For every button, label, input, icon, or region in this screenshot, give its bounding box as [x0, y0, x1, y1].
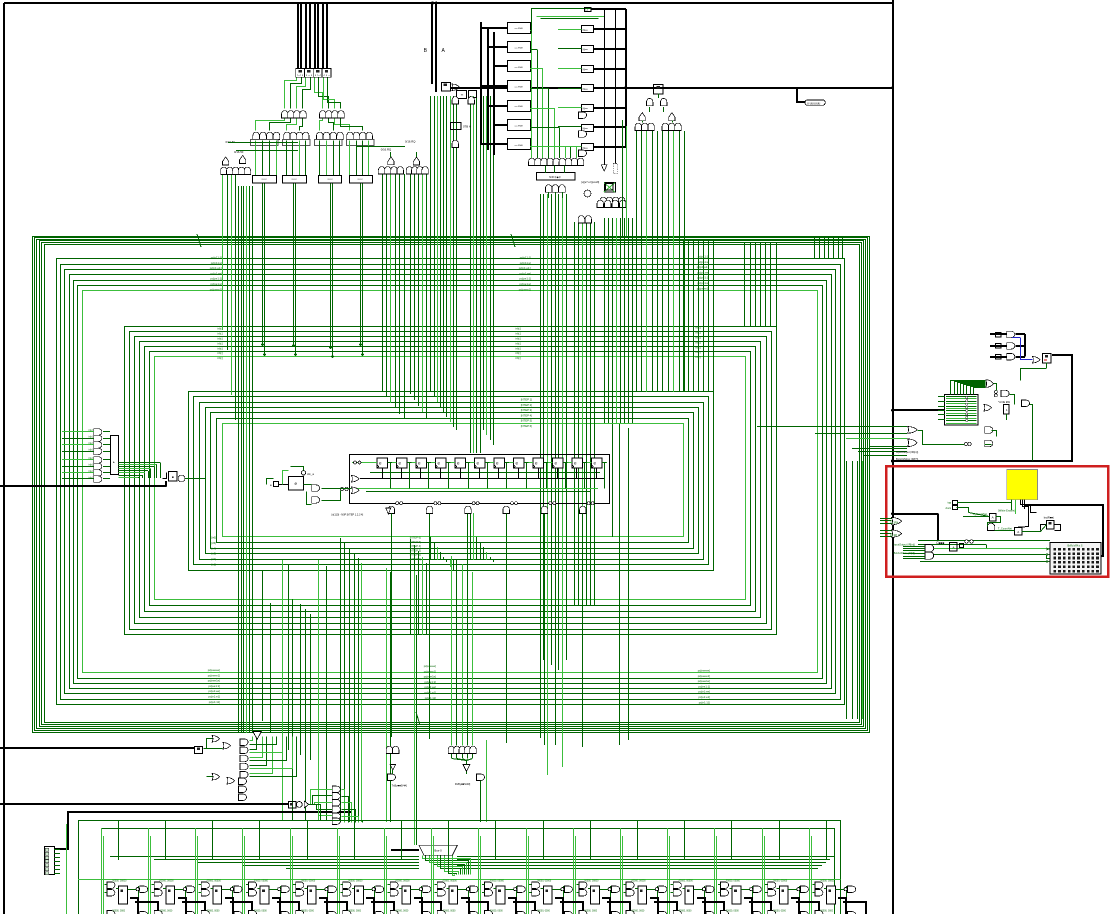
gate C3 row (4 gates) — [406, 167, 428, 174]
svg-text:clock: clock — [945, 507, 951, 510]
register cells column wires — [102, 820, 847, 914]
svg-text:2-2-2: 2-2-2 — [261, 179, 267, 181]
svg-text:ir[e]: ir[e] — [89, 449, 93, 452]
svg-text:[NTEP 2]: [NTEP 2] — [521, 403, 533, 407]
svg-text:irb[.]: irb[.] — [218, 331, 224, 335]
svg-text:a.a 9Rd9: a.a 9Rd9 — [515, 28, 524, 30]
svg-text:a.a 9Rd9: a.a 9Rd9 — [515, 125, 524, 127]
svg-text:00000, 0000: 00000, 0000 — [679, 911, 692, 913]
wires ctl cluster — [266, 467, 352, 505]
svg-text:pc[ee1:1]: pc[ee1:1] — [698, 684, 710, 688]
red tiny comp — [960, 544, 964, 548]
wires BL inputs — [205, 739, 223, 777]
svg-text:00000, 00000: 00000, 00000 — [254, 881, 269, 883]
IO black wires rows — [990, 334, 1025, 357]
svg-text:pc[eeeee]: pc[eeeee] — [698, 669, 711, 673]
clk source circle — [301, 471, 314, 476]
svg-text:2-2-2: 2-2-2 — [291, 179, 297, 181]
svg-text:00000, 00000: 00000, 00000 — [820, 881, 835, 883]
wires mid elbows — [342, 790, 363, 823]
svg-text:pc[e1:ee]: pc[e1:ee] — [424, 685, 436, 689]
wires C2 C3 inputs — [357, 147, 417, 158]
input connector array — [45, 847, 61, 875]
wires rx fan — [309, 790, 333, 821]
wire pair x620 lower — [613, 424, 629, 745]
gate pyramid right (4) — [597, 200, 626, 207]
mux trapezoid Bus-0 — [419, 845, 457, 855]
svg-text:pc[e1:e1]: pc[e1:e1] — [698, 695, 710, 699]
control box bottom gates — [388, 502, 594, 514]
gate column mid (6) — [332, 786, 340, 824]
svg-text:a.a 9Rd9: a.a 9Rd9 — [515, 145, 524, 147]
wire y87 long to right border — [450, 87, 892, 89]
svg-text:00000, 0000: 00000, 0000 — [301, 911, 314, 913]
component OTB H box — [451, 123, 462, 130]
svg-text:pc[eee1e]: pc[eee1e] — [698, 679, 711, 683]
svg-text:pc[p1:e1:]: pc[p1:e1:] — [519, 266, 532, 270]
red circ comps — [965, 540, 973, 543]
wire T box loop right — [893, 355, 1072, 461]
svg-text:Bus-0: Bus-0 — [434, 849, 442, 853]
svg-text:irb[:]: irb[:] — [516, 341, 522, 345]
wire bundle lower-mid band — [341, 538, 362, 822]
svg-text:N•••: N••• — [583, 28, 588, 32]
gate C1 xor a — [223, 157, 229, 165]
wire bundle V10 — [541, 194, 567, 775]
svg-text:a.a 9Rd9: a.a 9Rd9 — [515, 47, 524, 49]
wire a2 to right — [591, 8, 626, 10]
wire row1 to row2 — [256, 119, 363, 131]
component m1 — [457, 91, 467, 99]
component a-2 — [585, 8, 591, 12]
svg-text:N•••: N••• — [583, 126, 588, 130]
ROM top green wires — [532, 9, 611, 34]
gate BL or1 — [212, 736, 220, 743]
svg-text:pc[e1:e1]: pc[e1:e1] — [208, 695, 220, 699]
svg-text:ir[e]: ir[e] — [89, 476, 93, 479]
svg-text:pc[pe1:1]: pc[pe1:1] — [519, 277, 531, 281]
svg-text:00000, 00000: 00000, 00000 — [679, 881, 694, 883]
register cell labels — [112, 881, 835, 883]
wire tx down — [390, 754, 392, 765]
gate tx and — [388, 774, 396, 781]
diamond gate below ctl — [386, 508, 391, 514]
T flipflop box — [1043, 354, 1052, 364]
wires ring to IO cluster — [757, 427, 907, 456]
wire bundle V15 right of group4 — [684, 240, 714, 392]
svg-text:pc[eeee1]: pc[eeee1] — [698, 674, 711, 678]
svg-text:pc[eeee1]: pc[eeee1] — [208, 673, 221, 677]
decoder box D4 — [350, 176, 373, 183]
gate BL or4 — [227, 778, 235, 785]
svg-text:00000, 00000: 00000, 00000 — [112, 881, 127, 883]
splitter box y748 — [195, 747, 203, 754]
svg-text:pc[p1:ee]: pc[p1:ee] — [519, 271, 531, 275]
svg-text:pc[p11:1]: pc[p11:1] — [520, 256, 532, 260]
svg-text:00000, 0000: 00000, 0000 — [820, 911, 833, 913]
ROM N outputs black — [593, 9, 626, 147]
wire bundle V8 — [431, 96, 457, 570]
yellow LED square — [1007, 470, 1038, 500]
svg-text:a.a 9Rd9: a.a 9Rd9 — [515, 86, 524, 88]
wire bundle V11 — [575, 222, 595, 606]
regfile outer green rect top — [67, 821, 841, 914]
gate T3 row a (3) — [635, 123, 654, 130]
wire pair x414 — [415, 571, 417, 845]
clock pin box — [953, 506, 958, 510]
IO blue wire — [1012, 338, 1033, 360]
wire y748 to gate — [204, 739, 213, 749]
svg-text:0TB H: 0TB H — [463, 125, 471, 129]
svg-text:[ir2]: [ir2] — [211, 557, 216, 561]
gate IO and big — [1022, 400, 1030, 407]
bus ring group1 (outer pc bus) — [33, 237, 870, 733]
wire pairs below decoder boxes — [261, 182, 364, 358]
bus ring group4 (step bits) — [189, 392, 714, 571]
FF boxes row — [377, 458, 602, 468]
svg-text:00000, 0000: 00000, 0000 — [254, 911, 267, 913]
regfile stepped bus lines — [110, 857, 834, 869]
frame left border — [3, 3, 5, 914]
IO cluster green links — [918, 363, 1047, 461]
svg-text:00000, 0000: 00000, 0000 — [443, 911, 456, 913]
ROM lower gates (3) — [545, 185, 565, 192]
svg-text:a.a 9Rd9: a.a 9Rd9 — [515, 67, 524, 69]
svg-text:a.a 9Rd9: a.a 9Rd9 — [515, 106, 524, 108]
frame right border — [892, 0, 894, 914]
IO pin row3 gate — [1007, 354, 1015, 361]
svg-text:00000, 00000: 00000, 00000 — [537, 881, 552, 883]
wire bundle V14 right of group3 — [745, 243, 777, 327]
gate row rx2 (5) — [448, 746, 476, 753]
svg-text:00000, 0000: 00000, 0000 — [396, 911, 409, 913]
red io input wires — [880, 519, 892, 537]
svg-text:pc[eee1e]: pc[eee1e] — [208, 679, 221, 683]
left input wires — [62, 429, 94, 479]
wire left cluster black elbow — [163, 473, 167, 479]
gate count and — [987, 523, 994, 530]
gate T3 row b (3) — [662, 123, 681, 130]
component N cross box — [606, 184, 614, 190]
svg-text:pc[e1:e1]: pc[e1:e1] — [424, 691, 436, 695]
svg-text:00000, 0000: 00000, 0000 — [632, 911, 645, 913]
component m2 — [469, 91, 477, 98]
svg-text:pc[pe1:e]: pc[pe1:e] — [519, 282, 531, 286]
svg-text:[e][e? e=[puxx8]: [e][e? e=[puxx8] — [581, 181, 599, 184]
svg-text:A: A — [952, 545, 954, 549]
input pin a — [270, 482, 279, 488]
wire B (black vertical) — [431, 3, 433, 84]
decoder box D1 — [253, 176, 277, 183]
wire bundle top black (pc load) — [298, 3, 327, 68]
svg-text:N•••: N••• — [583, 68, 588, 72]
gate BL column2 (3) — [239, 778, 247, 801]
decoder box D2 — [283, 176, 307, 183]
wires BL staircase — [250, 737, 297, 777]
svg-text:00000, 00000: 00000, 00000 — [726, 881, 741, 883]
svg-text:2-2-2: 2-2-2 — [327, 179, 333, 181]
wire bundle V13 — [637, 131, 685, 392]
svg-text:00000, 0000: 00000, 0000 — [112, 911, 125, 913]
svg-text:[ir4]: [ir4] — [211, 546, 216, 550]
wire black to dashed box — [615, 9, 617, 164]
gate ROM and r6 — [579, 131, 587, 138]
wires gates to tall box — [103, 432, 110, 479]
wire fanout from splitters — [285, 78, 341, 109]
svg-text:irb[:]: irb[:] — [218, 341, 224, 345]
gate BL or3 — [212, 774, 220, 781]
svg-text:pc[p1:e1:]: pc[p1:e1:] — [210, 266, 223, 270]
svg-text:00000, 00000: 00000, 00000 — [490, 881, 505, 883]
gate tx tri — [390, 765, 395, 770]
wire input (left, y812) — [54, 812, 351, 849]
buffer triangle BL — [253, 732, 262, 740]
svg-text:T_CountNet: T_CountNet — [998, 527, 1012, 531]
svg-text:[NTEP 5]: [NTEP 5] — [521, 419, 533, 423]
svg-text:00000, 00000: 00000, 00000 — [443, 881, 458, 883]
left cluster output bus — [118, 463, 160, 479]
svg-text:[ir5]: [ir5] — [211, 541, 216, 545]
svg-text:[ir6]: [ir6] — [211, 536, 216, 540]
svg-text:BxRd xRA x S: BxRd xRA x S — [1067, 544, 1082, 547]
splitter T3 box — [654, 85, 664, 94]
control box rect — [350, 455, 610, 504]
wire bundle lower-left taps — [263, 560, 327, 820]
wires row2 to decoders — [256, 141, 369, 176]
ROM N input wires — [558, 30, 581, 147]
gate left interface — [178, 475, 185, 482]
gate red and b — [925, 552, 934, 559]
svg-text:00000, 00000: 00000, 00000 — [584, 881, 599, 883]
T counter box — [1015, 528, 1022, 535]
svg-text:pc[e1:11]: pc[e1:11] — [209, 700, 221, 704]
wires below yellow — [1012, 500, 1025, 514]
svg-text:ir[e]: ir[e] — [89, 429, 93, 432]
IO small box 1 — [1004, 405, 1010, 415]
svg-text:ir[e]: ir[e] — [89, 457, 93, 460]
svg-text:[NTEP 3]: [NTEP 3] — [521, 408, 533, 412]
svg-text:A: A — [992, 515, 994, 519]
register second row partial — [107, 911, 856, 914]
svg-text:pc[p11:1]: pc[p11:1] — [211, 256, 223, 260]
register cell black wires — [130, 898, 866, 914]
svg-text:pc[pe1:e]: pc[pe1:e] — [210, 282, 222, 286]
svg-text:pc[e1:11]: pc[e1:11] — [425, 696, 437, 700]
svg-text:irb[:]: irb[:] — [218, 346, 224, 350]
svg-text:TxBy■■S/4#]: TxBy■■S/4#] — [392, 783, 407, 787]
svg-text:ir[e]: ir[e] — [89, 470, 93, 473]
svg-text:[ir1]: [ir1] — [211, 563, 216, 567]
svg-text:pc[e1:11]: pc[e1:11] — [699, 700, 711, 704]
buffer triangle ROM — [601, 165, 607, 171]
svg-text:N•••: N••• — [583, 48, 588, 52]
dashed splitter box — [613, 164, 617, 174]
circle gate ROM — [584, 190, 591, 197]
svg-text:pc[peee1]: pc[peee1] — [210, 287, 223, 291]
gate IO left or b — [908, 439, 918, 447]
hatched splitter box — [938, 395, 978, 426]
svg-text:00000, 00000: 00000, 00000 — [348, 881, 363, 883]
svg-text:[NTEP 1]: [NTEP 1] — [521, 398, 533, 402]
IO pin row1 box — [996, 333, 1002, 338]
wire pin to box — [278, 484, 288, 486]
wires C1 down — [223, 143, 299, 421]
svg-text:u uuuuuu: u uuuuuu — [807, 101, 821, 105]
ROM row boxes — [508, 23, 531, 150]
red io input wires2 — [903, 547, 925, 559]
wire bundle V6 lower — [387, 568, 391, 822]
svg-text:[ir3]: [ir3] — [211, 552, 216, 556]
gate ctl circles — [354, 461, 362, 464]
gate IO xor small pair — [964, 442, 971, 445]
ROM N boxes — [582, 26, 594, 151]
wire interface right — [185, 478, 205, 480]
junction dot border y461 — [891, 459, 894, 462]
svg-text:00000, 00000: 00000, 00000 — [207, 881, 222, 883]
svg-text:N•••: N••• — [583, 107, 588, 111]
svg-text:ir[e]: ir[e] — [89, 442, 93, 445]
wires rx2 feeds — [452, 556, 473, 746]
redbox green wires — [918, 513, 1051, 562]
svg-text:irb[:]: irb[:] — [516, 356, 522, 360]
wire input rx (left, y804) — [0, 803, 289, 805]
svg-text:00000, 0000: 00000, 0000 — [207, 911, 220, 913]
svg-text:cik_a: cik_a — [307, 472, 314, 476]
svg-text:RxBy■■S/4#]: RxBy■■S/4#] — [455, 782, 471, 786]
svg-text:irb[:]: irb[:] — [516, 336, 522, 340]
svg-text:irb[:]: irb[:] — [218, 356, 224, 360]
redbox black wires — [891, 505, 1060, 542]
hatch fan to or gate — [951, 381, 986, 395]
IO pin row2 gate — [1007, 343, 1015, 350]
gate row2 (16 and gates) — [253, 132, 373, 139]
wire bundle V16 right of group2 — [847, 461, 863, 719]
gate T3 b — [661, 98, 667, 105]
wires rx2 — [452, 740, 487, 822]
svg-text:00000, 00000: 00000, 00000 — [301, 881, 316, 883]
gate IO or small — [984, 405, 992, 412]
gate rx2 and — [477, 774, 485, 781]
svg-text:10[1R]_b: 10[1R]_b — [890, 534, 900, 537]
gate rx tri — [304, 801, 309, 808]
wire bundle V1 — [239, 186, 253, 733]
gate C2 row (4 gates) — [378, 167, 403, 174]
splitter box rx — [289, 802, 297, 808]
IO pin row3 box — [996, 355, 1002, 360]
gate IO and a — [985, 427, 993, 434]
svg-text:00000, 0000: 00000, 0000 — [584, 911, 597, 913]
svg-text:irb[:]: irb[:] — [516, 346, 522, 350]
wires below control box — [392, 514, 583, 748]
wire pins right — [957, 503, 1012, 513]
gate T3 xor b — [669, 113, 675, 121]
frame top border — [4, 2, 893, 4]
gate ctl or1 — [352, 476, 360, 483]
decoder box D3 — [319, 176, 342, 183]
svg-text:ir[e]: ir[e] — [89, 464, 93, 467]
svg-text:0/16.RQ: 0/16.RQ — [405, 140, 416, 144]
wire input (left, y748) — [0, 747, 195, 749]
svg-text:N/R ➁◆➁: N/R ➁◆➁ — [549, 175, 561, 179]
svg-text:00000, 0000: 00000, 0000 — [160, 911, 173, 913]
bus slash marks — [197, 234, 515, 725]
wire A (black vertical) — [435, 3, 437, 92]
svg-text:N•••: N••• — [583, 146, 588, 150]
svg-text:irb[:]: irb[:] — [218, 351, 224, 355]
gate ROM and r7 — [579, 150, 587, 157]
svg-text:00000, 0000: 00000, 0000 — [773, 911, 786, 913]
gate BL or2 big — [223, 743, 231, 750]
left decoder tall box — [111, 436, 119, 475]
red small box A — [950, 543, 957, 551]
N counter box — [990, 514, 996, 521]
gate row1 (8 xor gates) — [282, 111, 345, 118]
gate IO left or a — [908, 426, 918, 433]
svg-text:irb[:]: irb[:] — [516, 327, 522, 331]
gate rx circle — [296, 802, 302, 808]
svg-text:■: ■ — [172, 475, 174, 479]
probe display uu — [805, 100, 825, 105]
svg-text:00000, 00000: 00000, 00000 — [632, 881, 647, 883]
junction dot border y410 — [891, 409, 894, 412]
R counter box — [1047, 521, 1054, 529]
svg-text:00000, 0000: 00000, 0000 — [490, 911, 503, 913]
gate T3 xor a — [639, 113, 645, 121]
mux fan wires — [423, 856, 471, 876]
wires T3 — [643, 94, 673, 123]
gate red io b — [892, 530, 902, 537]
wire black to mux — [391, 849, 419, 851]
svg-text:BxtxUxMxxx (IR[?]): BxtxUxMxxx (IR[?]) — [896, 457, 918, 461]
wires ROM right pair down — [623, 120, 627, 236]
clock gen box — [289, 477, 304, 490]
svg-text:00000, 0000: 00000, 0000 — [726, 911, 739, 913]
splitter box BA — [442, 83, 451, 92]
svg-text:kxdR■■): kxdR■■) — [1044, 515, 1054, 519]
svg-text:pc[ee1:1]: pc[ee1:1] — [208, 684, 220, 688]
ROM bottom right gate row — [600, 197, 625, 204]
register file bright rail — [78, 879, 841, 881]
IO pin row2 box — [996, 344, 1002, 349]
gate IO and b — [985, 440, 993, 447]
wire bundle V12 — [605, 218, 633, 423]
red highlight box — [886, 466, 1108, 577]
wires rombox down — [546, 166, 565, 174]
svg-text:*A NE EW: *A NE EW — [998, 400, 1010, 404]
svg-text:pc[pe1:1]: pc[pe1:1] — [210, 277, 222, 281]
wire probe drop — [797, 88, 805, 102]
gate ctl and1 — [312, 485, 320, 492]
gate BA and3 — [452, 140, 458, 147]
svg-text:InputOutput (IR[m]): InputOutput (IR[m]) — [896, 450, 918, 454]
bus ring group3 (ir bits) — [125, 327, 777, 635]
svg-text:ir[e]: ir[e] — [89, 436, 93, 439]
wire border to hatch box — [893, 409, 945, 411]
svg-text:[n[110] - N0P [NTEP 1,2,3 4]: [n[110] - N0P [NTEP 1,2,3 4] — [332, 514, 364, 517]
svg-text:pc[p1:ee]: pc[p1:ee] — [210, 271, 222, 275]
gate BA and2 — [468, 97, 474, 104]
ROM left black bus — [481, 22, 507, 155]
svg-text:2-2-2: 2-2-2 — [357, 179, 363, 181]
gate C2 xor a — [388, 157, 394, 165]
left input gate column (8 and gates) — [94, 429, 102, 483]
gate BA or — [452, 84, 460, 91]
gate BL column1 (5) — [240, 739, 248, 778]
gate IO bigor — [986, 380, 994, 388]
wire bundle V7 — [411, 174, 427, 635]
svg-text:A: A — [1017, 530, 1019, 534]
svg-text:irb[:]: irb[:] — [516, 351, 522, 355]
